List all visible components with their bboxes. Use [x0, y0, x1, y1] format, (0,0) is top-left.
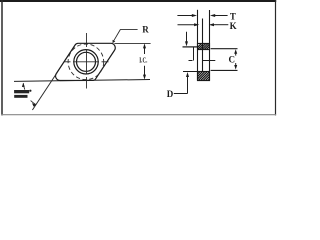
countersink step line + K extension — [202, 19, 204, 72]
I.C. dimension line bottom arrow — [144, 66, 146, 77]
leader arrowhead for R — [113, 40, 116, 43]
angle arc arrowhead (lower, at crossing line) — [32, 103, 36, 107]
I.C. dimension line top arrow — [144, 47, 146, 54]
top section hatch — [198, 44, 210, 50]
K dimension arrows — [178, 24, 195, 26]
T dimension arrows — [177, 15, 192, 17]
angle arc arrowhead (upper, pointing up at edge extension) — [22, 83, 25, 87]
long diagonal crossing line through left corner — [32, 72, 57, 110]
hole top extension line (left) — [183, 46, 198, 48]
C dimension bottom arrow — [235, 63, 237, 66]
left face line + T extension — [197, 10, 199, 81]
bottom section hatch — [198, 72, 210, 81]
insert face view: rhombus outline with rounded corners — [56, 43, 116, 80]
vertical tick between hole-top line and centerline — [193, 47, 195, 61]
svg-text:C: C — [229, 55, 236, 65]
D lower arrow (pointing up at hole-bottom line) — [187, 77, 189, 94]
border frame — [0, 0, 276, 115]
top face line — [197, 43, 210, 45]
I.C. top extension line (right of corner) — [114, 42, 150, 44]
vertical centerline — [86, 33, 88, 89]
svg-text:R: R — [142, 24, 149, 34]
svg-text:I.C.: I.C. — [139, 57, 147, 65]
horizontal centerline — [65, 61, 109, 63]
leader line for R — [113, 30, 137, 42]
inscribed circle (dashed) — [68, 44, 104, 80]
degree dot — [29, 90, 31, 92]
leader line for D — [174, 93, 188, 95]
hole bottom line — [183, 71, 210, 73]
svg-text:K: K — [230, 21, 237, 31]
C extension lines (right) — [211, 48, 238, 50]
C dimension top arrow — [235, 53, 237, 56]
bottom face line — [197, 80, 210, 82]
angle value text (tiny, illegible in source: two bars) — [14, 90, 29, 93]
bottom edge extension line (left and right of rhombus) — [14, 80, 150, 82]
right face line + T extension — [209, 10, 211, 81]
countersink mouth line — [197, 49, 210, 51]
included angle arc (interrupted by label) — [23, 83, 25, 89]
svg-text:T: T — [230, 11, 236, 21]
D upper arrow (pointing down at hole-top line) — [186, 32, 188, 42]
hole centerline stubs — [189, 60, 193, 62]
hole outer circle — [74, 50, 98, 74]
svg-text:D: D — [167, 89, 174, 99]
hole inner circle — [77, 52, 96, 71]
